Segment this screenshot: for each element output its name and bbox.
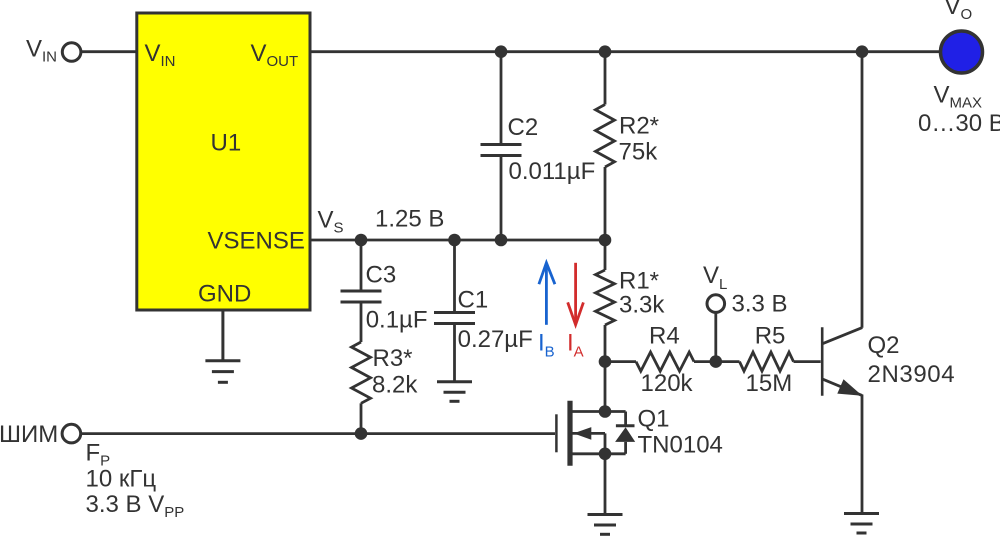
svg-text:Q1: Q1 bbox=[638, 405, 670, 432]
output terminal VO bbox=[941, 31, 983, 73]
wire: R1 upper lead bbox=[604, 240, 607, 270]
Q2 emitter arrow bbox=[837, 379, 862, 396]
node: Q1 source bbox=[599, 448, 612, 461]
svg-text:R1*: R1* bbox=[619, 268, 659, 295]
svg-text:C2: C2 bbox=[508, 114, 539, 141]
svg-text:3.3 В VPP: 3.3 В VPP bbox=[86, 491, 185, 521]
node: VL/R4/R5 bbox=[710, 355, 723, 368]
wire: Q2 collector vertical bbox=[861, 52, 864, 328]
PWM terminal bbox=[62, 424, 81, 443]
resistor R1 bbox=[596, 270, 615, 325]
node: R1 top bbox=[599, 234, 612, 247]
wire: C3 upper lead bbox=[360, 240, 363, 290]
svg-text:R5: R5 bbox=[755, 323, 786, 350]
wire: R2 lower lead bbox=[604, 167, 607, 240]
wire: node rail R1/R4 to Q2 base bbox=[605, 360, 636, 363]
resistor R4 bbox=[636, 352, 694, 371]
svg-text:IA: IA bbox=[567, 330, 584, 361]
node: C2 top bbox=[495, 45, 508, 58]
svg-text:0.011µF: 0.011µF bbox=[509, 158, 596, 185]
node: R3 at PWM rail bbox=[355, 427, 368, 440]
resistor R3 bbox=[352, 342, 371, 403]
wire: C2 upper lead bbox=[500, 52, 503, 143]
wire: C1 to ground bbox=[453, 325, 456, 382]
resistor R5 bbox=[740, 352, 794, 371]
ground: U1 GND pin bbox=[205, 311, 240, 382]
current arrow IB (blue, up) bbox=[539, 263, 555, 325]
Q1 gate bar bbox=[555, 414, 558, 452]
ground: C1 bbox=[437, 382, 472, 402]
svg-text:VSENSE: VSENSE bbox=[208, 228, 305, 255]
wire: Q1 drain up to node bbox=[604, 362, 607, 412]
Q2 collector diagonal bbox=[823, 328, 863, 344]
node: C1 at VSENSE bbox=[448, 234, 461, 247]
Q1 body-source link bbox=[604, 433, 607, 453]
svg-text:ШИМ: ШИМ bbox=[0, 421, 58, 448]
Q2 base bar bbox=[821, 327, 824, 396]
node: Q2 collector top bbox=[856, 45, 869, 58]
Q1 channel bar bbox=[567, 401, 572, 466]
capacitor C2 bbox=[481, 145, 522, 156]
svg-text:IB: IB bbox=[538, 330, 555, 361]
svg-text:2N3904: 2N3904 bbox=[868, 361, 956, 388]
wire: C2 lower lead bbox=[500, 157, 503, 240]
terminal VL bbox=[707, 295, 725, 313]
svg-text:C1: C1 bbox=[458, 286, 489, 313]
svg-text:VIN: VIN bbox=[26, 36, 57, 66]
wire: R1 lower lead bbox=[604, 325, 607, 362]
svg-text:VO: VO bbox=[945, 0, 973, 23]
svg-text:VS: VS bbox=[318, 207, 344, 237]
ground: Q1 source bbox=[588, 515, 623, 535]
wire: top rail VOUT to VO terminal bbox=[310, 50, 940, 53]
wire: VIN terminal to U1 bbox=[81, 50, 137, 53]
Q1 body lead bbox=[570, 432, 605, 435]
wire: Q2 emitter vertical to ground bbox=[861, 395, 864, 514]
svg-text:GND: GND bbox=[198, 281, 251, 308]
wire: R2 upper lead bbox=[604, 52, 607, 105]
node: C3 at VSENSE bbox=[355, 234, 368, 247]
svg-text:0…30 В: 0…30 В bbox=[918, 110, 1000, 137]
MOSFET Q1 bbox=[556, 401, 634, 466]
Q1 source lead bbox=[570, 452, 626, 455]
current arrow IA (red, down) bbox=[568, 263, 584, 325]
capacitor C1 bbox=[434, 313, 475, 324]
wire: VSENSE rail bbox=[310, 239, 605, 242]
regulator U1 bbox=[137, 13, 310, 310]
svg-text:R3*: R3* bbox=[373, 345, 413, 372]
Q1 body diode anode link bbox=[624, 412, 627, 427]
svg-text:TN0104: TN0104 bbox=[638, 432, 723, 459]
svg-text:8.2k: 8.2k bbox=[372, 372, 418, 399]
svg-text:U1: U1 bbox=[211, 130, 242, 157]
svg-text:C3: C3 bbox=[366, 262, 397, 289]
wire: Q1 source down to ground bbox=[604, 454, 607, 515]
ground: Q2 emitter bbox=[844, 514, 879, 534]
svg-text:75k: 75k bbox=[619, 139, 659, 166]
transistor Q2 bbox=[822, 327, 862, 396]
node: C2 at VSENSE bbox=[495, 234, 508, 247]
Q1 drain lead bbox=[570, 410, 626, 413]
resistor R2 bbox=[596, 105, 615, 168]
wire: R3 lower lead bbox=[360, 403, 363, 433]
svg-text:10 кГц: 10 кГц bbox=[86, 466, 157, 493]
wire: C3 to R3 bbox=[360, 304, 363, 343]
wire: C1 upper lead bbox=[453, 240, 456, 311]
Q1 body diode triangle bbox=[615, 427, 635, 442]
svg-text:Q2: Q2 bbox=[868, 332, 900, 359]
svg-text:15M: 15M bbox=[746, 370, 793, 397]
svg-text:R4: R4 bbox=[649, 323, 680, 350]
wire: VL stem bbox=[714, 313, 717, 362]
capacitor C3 bbox=[341, 291, 382, 302]
svg-text:0.1µF: 0.1µF bbox=[366, 307, 428, 334]
svg-text:3.3 В: 3.3 В bbox=[732, 291, 788, 318]
svg-text:VMAX: VMAX bbox=[934, 82, 983, 112]
wire: R4 to VL node bbox=[694, 360, 740, 363]
wire: PWM rail to Q1 gate bbox=[81, 432, 555, 435]
Q2 emitter diagonal bbox=[823, 379, 863, 395]
Q1 body arrow bbox=[574, 427, 592, 440]
svg-text:1.25 В: 1.25 В bbox=[375, 206, 444, 233]
wire: R5 to Q2 base bbox=[794, 360, 821, 363]
svg-text:0.27µF: 0.27µF bbox=[458, 326, 533, 353]
node: Q1 drain bbox=[599, 405, 612, 418]
node: R2 top bbox=[599, 45, 612, 58]
svg-text:R2*: R2* bbox=[619, 113, 659, 140]
svg-text:3.3k: 3.3k bbox=[619, 292, 665, 319]
Q1 body diode cathode bar bbox=[616, 424, 635, 427]
svg-text:120k: 120k bbox=[641, 370, 694, 397]
svg-text:VL: VL bbox=[703, 262, 727, 293]
input terminal VIN bbox=[62, 43, 81, 62]
node: R1/R4 bbox=[599, 355, 612, 368]
